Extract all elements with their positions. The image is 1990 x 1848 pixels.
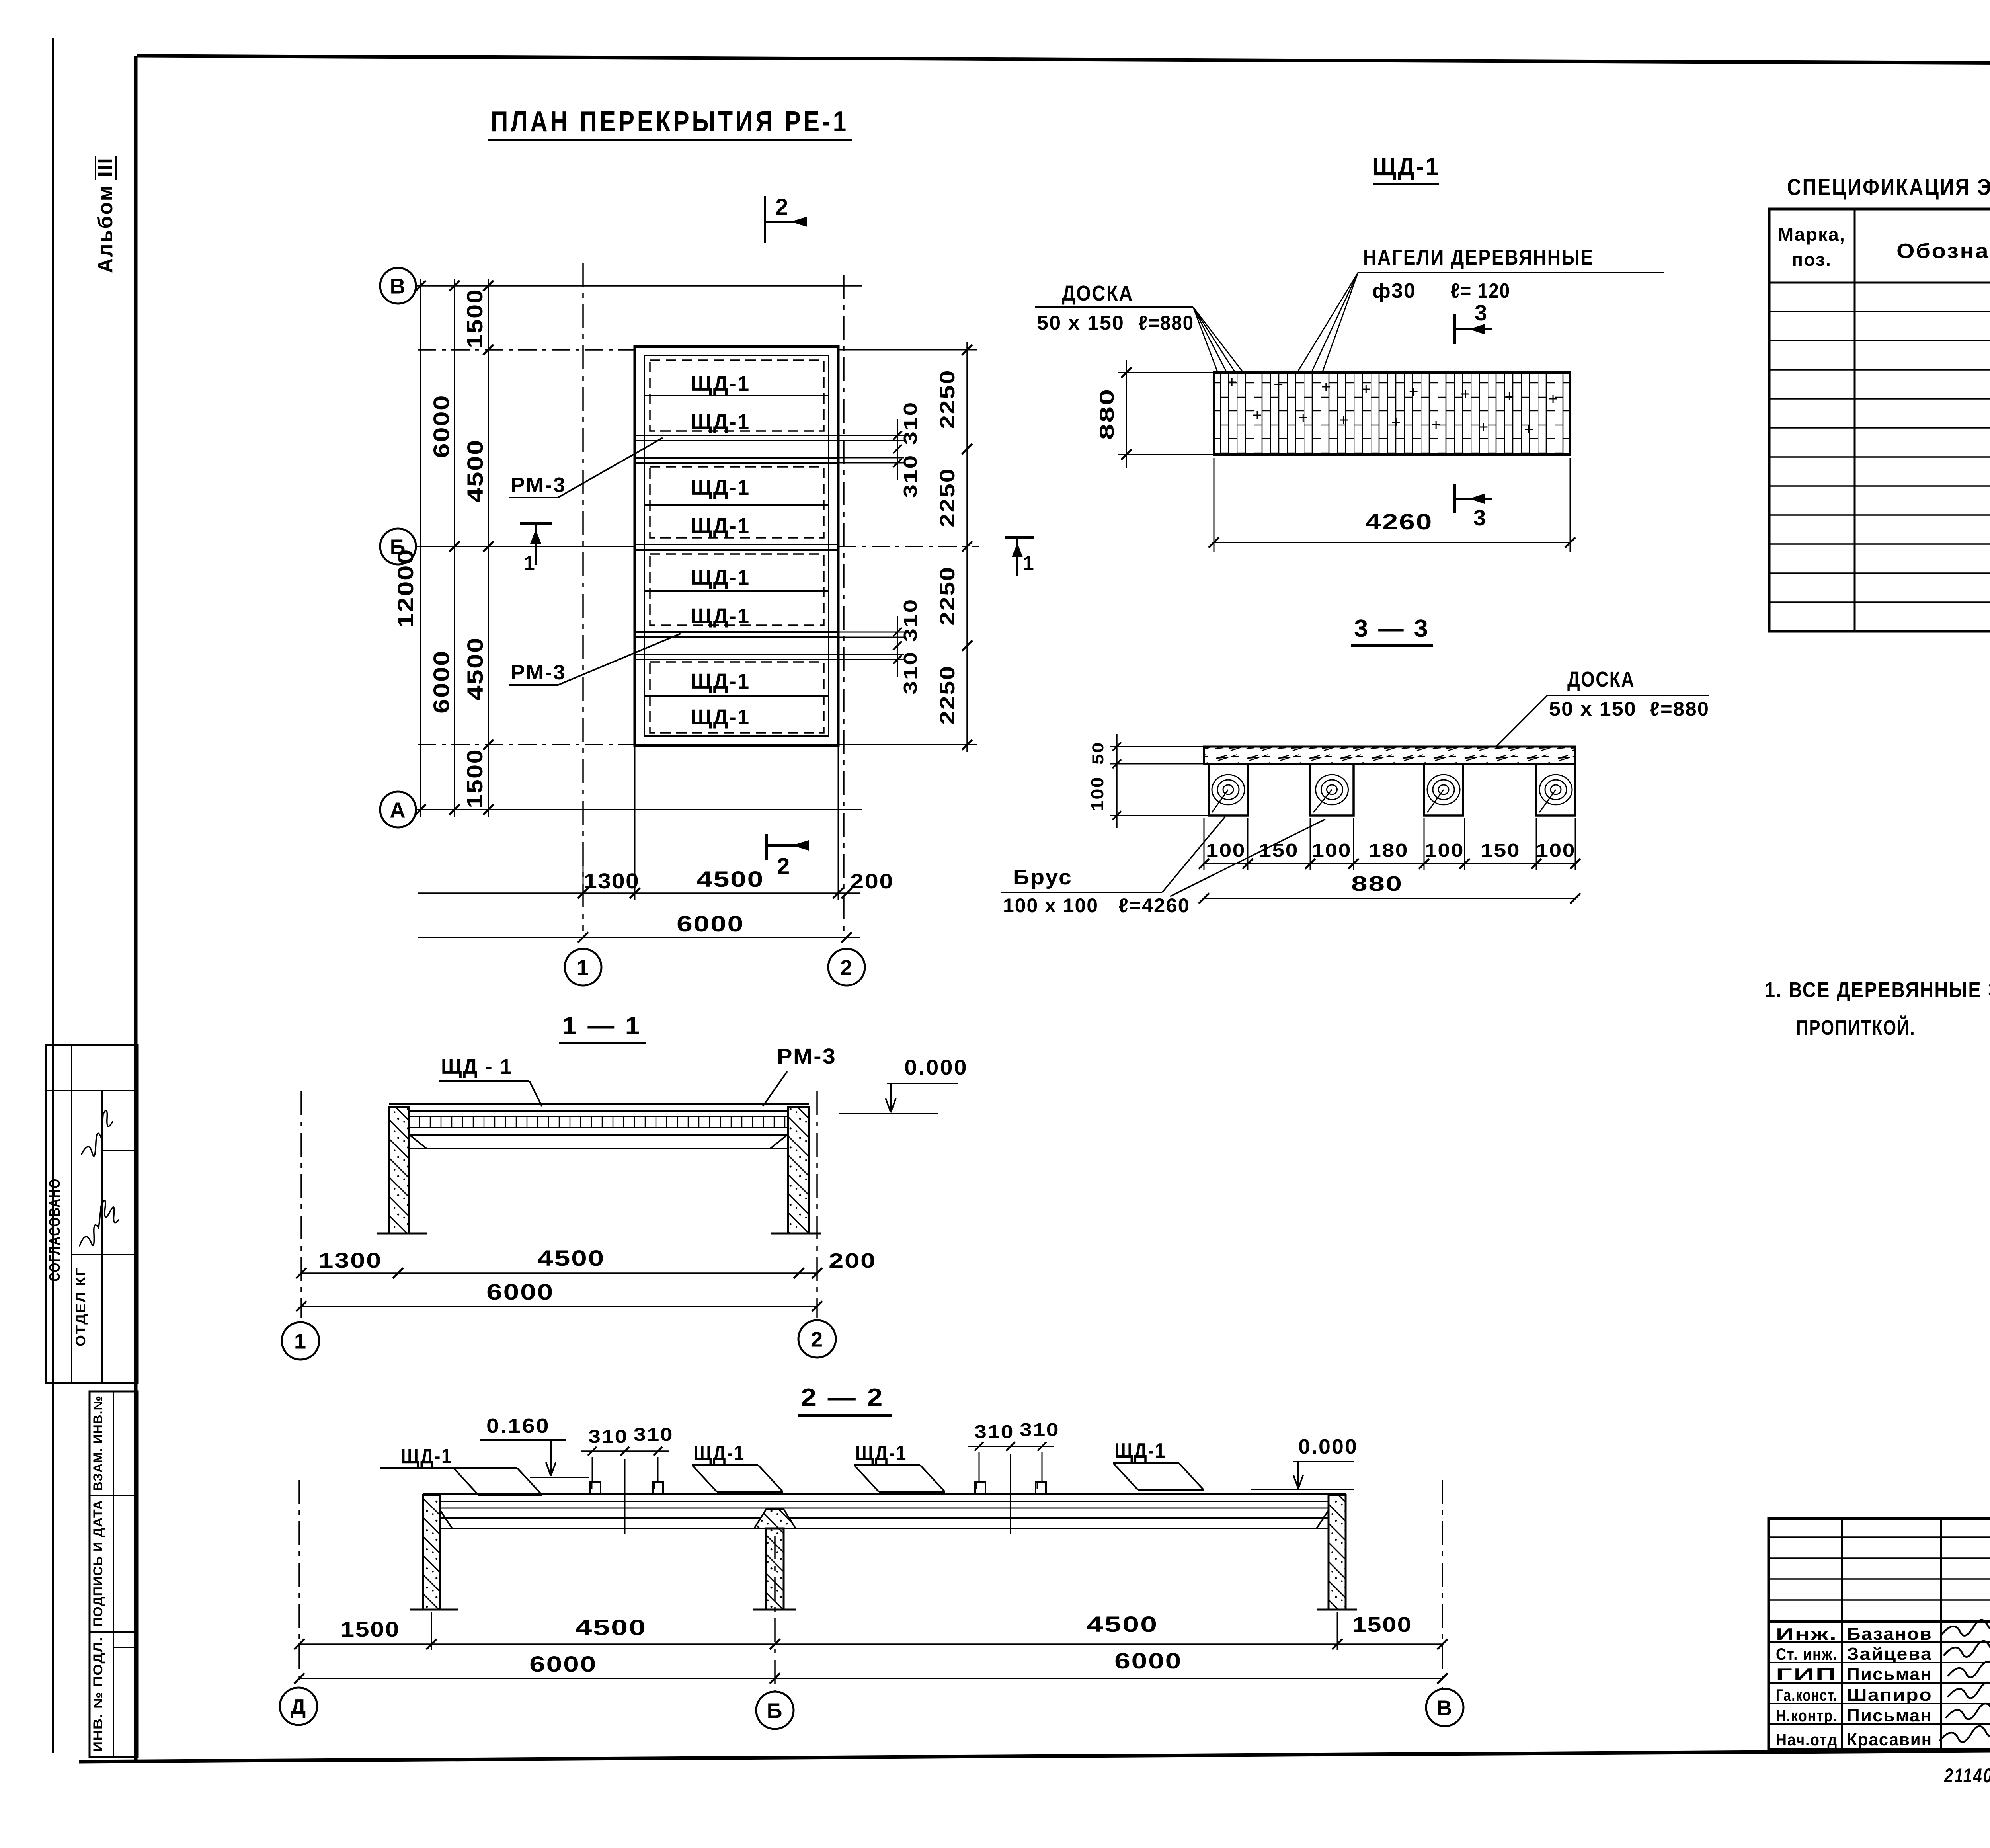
svg-text:4500: 4500: [462, 439, 488, 503]
svg-text:Д: Д: [291, 1695, 306, 1719]
svg-text:4500: 4500: [696, 866, 764, 892]
svg-text:310: 310: [1020, 1419, 1059, 1440]
svg-text:ф30: ф30: [1372, 279, 1416, 302]
svg-text:ЩД-1: ЩД-1: [691, 514, 750, 538]
svg-text:310: 310: [900, 401, 921, 445]
svg-text:4500: 4500: [575, 1615, 647, 1640]
svg-text:РМ-3: РМ-3: [511, 474, 566, 497]
svg-text:0.000: 0.000: [1298, 1435, 1358, 1458]
svg-text:100: 100: [1424, 840, 1464, 861]
svg-text:1 — 1: 1 — 1: [562, 1012, 642, 1040]
svg-text:150: 150: [1481, 840, 1520, 861]
svg-text:4500: 4500: [537, 1245, 605, 1270]
svg-text:1: 1: [1023, 552, 1035, 574]
svg-text:Зайцева: Зайцева: [1847, 1644, 1932, 1664]
svg-text:ОТДЕЛ КГ: ОТДЕЛ КГ: [73, 1267, 88, 1346]
svg-text:Ст. инж.: Ст. инж.: [1776, 1645, 1838, 1663]
svg-text:2: 2: [811, 1327, 823, 1351]
svg-text:ПРОПИТКОЙ.: ПРОПИТКОЙ.: [1796, 1015, 1916, 1040]
svg-text:50 х 150: 50 х 150: [1549, 698, 1637, 720]
svg-text:1: 1: [577, 956, 589, 980]
svg-text:310: 310: [900, 598, 921, 642]
svg-text:100 х 100: 100 х 100: [1003, 894, 1098, 917]
svg-text:1500: 1500: [462, 289, 487, 348]
svg-text:ЩД-1: ЩД-1: [693, 1442, 745, 1465]
svg-text:ℓ=880: ℓ=880: [1138, 312, 1194, 334]
svg-text:1500: 1500: [1352, 1613, 1412, 1637]
svg-text:6000: 6000: [677, 911, 744, 936]
svg-text:Красавин: Красавин: [1847, 1730, 1932, 1749]
svg-text:ЩД-1: ЩД-1: [855, 1442, 907, 1465]
svg-text:НАГЕЛИ ДЕРЕВЯННЫЕ: НАГЕЛИ ДЕРЕВЯННЫЕ: [1363, 246, 1594, 269]
svg-text:1: 1: [524, 552, 536, 574]
svg-text:2: 2: [840, 956, 853, 980]
svg-text:0.000: 0.000: [904, 1056, 968, 1079]
svg-text:200: 200: [829, 1249, 876, 1272]
svg-text:ЩД-1: ЩД-1: [401, 1445, 453, 1468]
svg-text:Га.конст.: Га.конст.: [1776, 1686, 1838, 1704]
svg-text:2 — 2: 2 — 2: [801, 1384, 884, 1411]
svg-text:ДОСКА: ДОСКА: [1567, 667, 1635, 691]
svg-text:ЩД-1: ЩД-1: [691, 476, 750, 500]
svg-text:2250: 2250: [936, 369, 959, 429]
svg-text:200: 200: [850, 870, 894, 893]
svg-text:ПЛАН ПЕРЕКРЫТИЯ РЕ-1: ПЛАН ПЕРЕКРЫТИЯ РЕ-1: [491, 106, 849, 138]
svg-text:В: В: [1437, 1696, 1453, 1720]
svg-text:1300: 1300: [318, 1249, 382, 1272]
svg-text:50 х 150: 50 х 150: [1037, 312, 1124, 334]
svg-text:Брус: Брус: [1013, 865, 1073, 889]
svg-text:ЩД-1: ЩД-1: [691, 669, 750, 693]
svg-text:6000: 6000: [429, 650, 454, 714]
svg-text:1500: 1500: [462, 749, 487, 808]
svg-text:А: А: [390, 798, 406, 822]
svg-text:Б: Б: [767, 1699, 783, 1723]
svg-text:310: 310: [974, 1421, 1014, 1442]
svg-text:2: 2: [777, 853, 790, 879]
svg-text:ЩД-1: ЩД-1: [691, 604, 750, 628]
svg-text:50: 50: [1089, 742, 1107, 765]
svg-text:100: 100: [1206, 840, 1246, 861]
svg-text:1: 1: [294, 1329, 307, 1353]
svg-text:1. ВСЕ ДЕРЕВЯННЫЕ ЭЛЕМЕНТЫ: 1. ВСЕ ДЕРЕВЯННЫЕ ЭЛЕМЕНТЫ АНТИСЕПТИРОВА…: [1765, 978, 1990, 1002]
svg-text:ДОСКА: ДОСКА: [1062, 281, 1134, 305]
svg-text:6000: 6000: [486, 1279, 554, 1304]
svg-text:ЩД-1: ЩД-1: [691, 410, 750, 434]
svg-text:СПЕЦИФИКАЦИЯ ЭЛЕМЕНТОВ ПЕРЕК: СПЕЦИФИКАЦИЯ ЭЛЕМЕНТОВ ПЕРЕКРЫТИЯ РЕЗЕРВ…: [1787, 174, 1990, 200]
svg-text:6000: 6000: [529, 1651, 597, 1676]
svg-text:0.160: 0.160: [486, 1415, 550, 1438]
svg-text:СОГЛАСОВАНО: СОГЛАСОВАНО: [47, 1178, 63, 1282]
svg-text:4500: 4500: [1087, 1612, 1158, 1637]
svg-text:2250: 2250: [936, 468, 959, 527]
svg-text:12000: 12000: [393, 548, 418, 628]
svg-text:310: 310: [634, 1424, 673, 1445]
svg-text:4260: 4260: [1365, 509, 1433, 534]
svg-text:3: 3: [1475, 300, 1488, 325]
svg-text:ГИП: ГИП: [1776, 1665, 1838, 1684]
svg-text:ЩД-1: ЩД-1: [1114, 1439, 1166, 1462]
svg-text:180: 180: [1369, 840, 1409, 861]
svg-text:1300: 1300: [584, 869, 640, 893]
svg-text:21140-03: 21140-03: [1944, 1764, 1990, 1787]
svg-text:2: 2: [775, 194, 789, 220]
svg-text:РМ-3: РМ-3: [511, 661, 566, 684]
svg-text:3: 3: [1473, 505, 1487, 530]
svg-text:6000: 6000: [429, 394, 454, 458]
svg-text:2250: 2250: [936, 566, 959, 626]
svg-text:Письман: Письман: [1847, 1665, 1932, 1684]
svg-text:ЩД - 1: ЩД - 1: [441, 1055, 513, 1079]
svg-text:Инж.: Инж.: [1776, 1625, 1838, 1643]
svg-text:Письман: Письман: [1847, 1706, 1932, 1725]
svg-text:ЩД-1: ЩД-1: [691, 566, 750, 589]
svg-text:В: В: [390, 274, 406, 298]
svg-text:Базанов: Базанов: [1847, 1624, 1932, 1644]
svg-text:310: 310: [900, 651, 921, 695]
svg-text:6000: 6000: [1114, 1648, 1182, 1673]
svg-text:100: 100: [1088, 776, 1107, 811]
svg-text:100: 100: [1312, 840, 1352, 861]
svg-text:880: 880: [1351, 872, 1403, 896]
svg-text:Шапиро: Шапиро: [1847, 1685, 1932, 1705]
svg-text:Марка,: Марка,: [1778, 224, 1846, 245]
svg-text:ℓ=880: ℓ=880: [1650, 698, 1709, 720]
svg-text:Н.контр.: Н.контр.: [1776, 1706, 1838, 1725]
svg-text:Альбом: Альбом: [94, 185, 117, 273]
svg-text:1500: 1500: [340, 1618, 400, 1641]
svg-text:ЩД-1: ЩД-1: [1372, 152, 1440, 181]
svg-text:2250: 2250: [936, 665, 959, 725]
svg-text:Обозначение: Обозначение: [1896, 240, 1990, 263]
svg-text:ИНВ. № ПОДЛ.: ИНВ. № ПОДЛ.: [91, 1637, 105, 1752]
svg-text:310: 310: [588, 1426, 628, 1447]
svg-text:100: 100: [1536, 840, 1576, 861]
svg-text:III: III: [94, 157, 117, 177]
svg-text:3 — 3: 3 — 3: [1354, 615, 1430, 642]
svg-text:ℓ= 120: ℓ= 120: [1451, 279, 1510, 302]
svg-text:ℓ=4260: ℓ=4260: [1118, 894, 1190, 917]
svg-text:310: 310: [900, 454, 921, 498]
svg-text:ЩД-1: ЩД-1: [691, 372, 750, 396]
svg-text:РМ-3: РМ-3: [777, 1044, 837, 1068]
svg-text:ВЗАМ. ИНВ.№: ВЗАМ. ИНВ.№: [91, 1395, 105, 1491]
svg-text:поз.: поз.: [1792, 249, 1832, 270]
svg-text:880: 880: [1096, 388, 1118, 440]
svg-text:ПОДПИСЬ И ДАТА: ПОДПИСЬ И ДАТА: [91, 1500, 105, 1627]
svg-text:ЩД-1: ЩД-1: [691, 705, 750, 729]
svg-text:Нач.отд: Нач.отд: [1776, 1730, 1838, 1749]
svg-text:4500: 4500: [462, 637, 488, 701]
